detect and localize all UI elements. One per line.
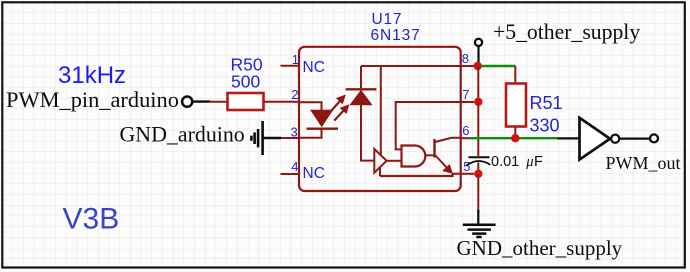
svg-text:NC: NC [303,165,325,182]
svg-text:GND_arduino: GND_arduino [120,122,245,147]
svg-text:4: 4 [291,159,298,174]
svg-text:8: 8 [462,51,469,66]
pin 5 line emitter to junction [452,173,474,175]
LED cathode bar [307,127,339,129]
ground GND_arduino (signal ground, bars vertical) [251,121,262,155]
svg-text:31kHz: 31kHz [58,62,126,89]
svg-text:GND_other_supply: GND_other_supply [457,236,623,260]
pin 8 stub [460,65,474,67]
wire green pin6 to inverter [469,137,557,139]
svg-text:+5_other_supply: +5_other_supply [493,20,640,44]
node R51 bottom junction [511,134,519,142]
wire (black) from terminal to R50 [193,100,210,102]
wire LED cathode to pin3 [299,129,322,138]
inverter bubble [611,135,619,143]
wire R51 top drop [514,66,516,84]
wire R51 bottom to pin6 wire [514,127,516,139]
svg-text:330: 330 [530,116,560,136]
photodiode triangle [350,91,371,105]
node pin7 junction [474,98,482,106]
transistor emitter with arrow [435,155,453,173]
emission arrow 2 [334,105,349,121]
wire AND to transistor base [425,154,433,156]
wire (maroon) to R50 [210,101,227,103]
svg-text:PWM_out: PWM_out [606,153,681,173]
svg-text:U17: U17 [372,11,403,28]
VCC top rail (pin8 to photodiode) [360,66,362,88]
svg-text:NC: NC [303,59,325,76]
terminal PWM_out [650,134,658,142]
ground GND_other_supply stem [477,210,479,224]
AND gate [402,146,426,167]
svg-text:3: 3 [291,125,298,140]
pin 7 stub [460,101,474,103]
rail capacitor down to pin5 junction [477,163,479,175]
pin 1 stub [281,65,300,67]
terminal +5_other_supply [475,39,482,46]
resistor R51 [506,84,526,127]
transistor collector [435,138,460,142]
node pin5 junction [474,170,482,178]
svg-text:7: 7 [462,87,469,102]
wire bubble to terminal [620,137,649,139]
pin 4 stub [281,173,300,175]
photodiode cathode bar [346,88,377,90]
ground bars [463,225,496,237]
rail pin5 junction down to ground [477,174,479,212]
svg-text:500: 500 [231,72,260,92]
pin 6 stub [460,137,469,139]
emission arrow 1 [331,95,346,111]
svg-text:V3B: V3B [63,202,120,235]
inverter U (NOT gate) [580,118,611,160]
svg-text:0.01 μF: 0.01 μF [491,154,543,170]
wire buffer to AND gate [387,160,402,162]
wire (black) ground to pin3 [264,137,282,139]
wire photodiode to buffer input [361,105,374,161]
svg-text:1: 1 [292,52,299,67]
svg-text:6: 6 [462,123,469,138]
wire pin2 to LED anode [299,102,322,110]
rail drop to buffer top [380,66,382,155]
svg-text:2: 2 [291,87,298,102]
svg-text:5: 5 [463,159,470,174]
wire (maroon) to pin3 [281,137,299,139]
buffer bottom drop [379,167,381,176]
capacitor curved plate [467,161,491,166]
node pin8 junction [474,62,482,70]
terminal PWM_pin_arduino [182,97,192,107]
rail pin7 junction down to capacitor [477,102,479,156]
resistor R50 [228,93,264,110]
wire R50 to pin2 [264,101,300,103]
svg-text:PWM_pin_arduino: PWM_pin_arduino [6,87,179,112]
svg-text:R51: R51 [530,93,563,113]
wire black pin6 to inverter [557,137,579,139]
wire green pin8 to R51 top [481,65,516,67]
internal ground rail to pin5 [380,174,453,176]
transistor Q base bar [433,139,435,158]
svg-text:6N137: 6N137 [371,27,421,44]
top rail horizontal [361,65,460,67]
LED D1 triangle (input diode) [311,110,332,126]
wire terminal down to pin8 junction [477,47,479,63]
rail pin8 junction down to pin7 junction [477,66,479,102]
enable wire from pin7 [396,102,460,149]
buffer amplifier triangle [374,149,386,173]
capacitor C (0.01uF) top plate [469,156,490,158]
op-amp U17 body (6N137 optocoupler) [299,47,461,191]
